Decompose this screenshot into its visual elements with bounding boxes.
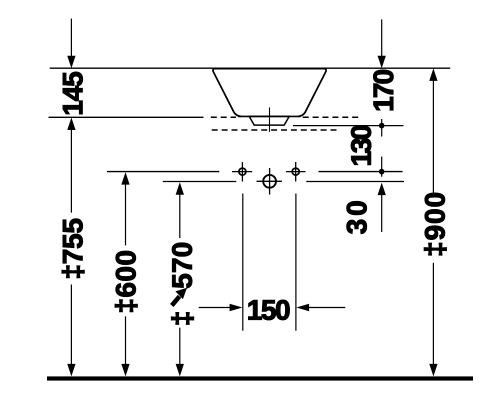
dimension 30 label xyxy=(347,201,367,233)
dimension 570 arrow up at line B xyxy=(176,182,184,238)
dimension 600 line lower segment xyxy=(125,316,127,365)
dimension 150 arrow pointing right xyxy=(199,304,243,312)
vessel basin outline xyxy=(213,69,326,117)
basin bottom edge xyxy=(238,115,301,117)
dimension 150 extension line right xyxy=(295,194,297,331)
dimension 600 arrow down at floor xyxy=(121,364,129,377)
dashed line below drain xyxy=(212,129,340,131)
hidden countertop line dashed, right of basin foot xyxy=(303,116,359,118)
dimension 30 arrow up at line B xyxy=(378,183,386,232)
hidden countertop line dashed, left of basin foot xyxy=(211,116,236,118)
dimension 570 line lower segment xyxy=(179,328,181,366)
dimension 570 arrow down at floor xyxy=(176,364,184,377)
faucet hole right (small circle with crosshair) xyxy=(286,162,306,182)
dimension 600 label xyxy=(115,251,137,311)
dimension 900 label xyxy=(424,193,446,255)
dimension 755 label xyxy=(62,219,84,278)
dimension 130 label xyxy=(351,126,371,165)
dimension 600 arrow up at line A xyxy=(121,172,129,245)
dimension 170 label xyxy=(373,70,393,110)
dimension 145 arrow down (top) xyxy=(67,19,75,69)
dimension 570 adjustability arrow xyxy=(172,288,187,306)
dimension 900 arrow up at rim line xyxy=(429,68,437,194)
dimension 130 endpoint dot on line A xyxy=(379,157,385,177)
dimension 755 arrow down at floor xyxy=(67,364,75,377)
dimension 150 extension line left xyxy=(242,194,244,331)
reference line B (right segment) xyxy=(306,181,404,183)
drain base trapezoid xyxy=(249,116,289,125)
dimension 150 arrow pointing left xyxy=(296,304,345,312)
dimension 570 label digits xyxy=(172,243,192,288)
top reference line (basin rim level) xyxy=(50,67,451,69)
floor line xyxy=(47,376,473,380)
dimension 150 label xyxy=(249,300,290,320)
dimension 755 arrow up at countertop xyxy=(67,118,75,213)
reference line B (left segment) xyxy=(163,181,237,183)
tap hole reference line A (right segment) xyxy=(319,171,403,173)
dimension 900 arrow down at floor xyxy=(429,364,437,377)
countertop surface line (left of basin) xyxy=(49,116,204,118)
dimension 145 label xyxy=(63,72,83,114)
drain centerline xyxy=(269,108,271,132)
dimension 755 line lower segment xyxy=(70,285,72,366)
dimension 570 dagger symbol xyxy=(171,312,193,324)
dimension 170 arrow down from top xyxy=(378,19,386,68)
faucet hole left (small circle with crosshair) xyxy=(232,162,252,182)
drain hole (large circle with crosshair) xyxy=(257,168,282,195)
dimension 170 endpoint dot on drain line xyxy=(379,119,385,137)
tap hole reference line A (left segment) xyxy=(107,171,219,173)
reference line at basin drain bottom (170 endpoint) xyxy=(293,125,404,127)
dimension 900 line lower segment xyxy=(432,263,434,366)
